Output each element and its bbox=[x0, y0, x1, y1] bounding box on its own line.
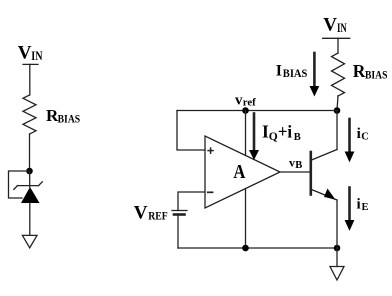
wire battery to rail bbox=[177, 215, 179, 249]
op-amp A bbox=[205, 136, 280, 208]
wire bbox=[337, 38, 339, 53]
svg-text:+i: +i bbox=[278, 122, 292, 142]
label iC bbox=[357, 126, 369, 142]
label VREF bbox=[134, 202, 168, 223]
svg-text:C: C bbox=[361, 131, 369, 142]
label iE bbox=[357, 197, 369, 213]
svg-text:REF: REF bbox=[148, 211, 168, 223]
svg-text:IN: IN bbox=[31, 48, 43, 63]
svg-text:I: I bbox=[276, 62, 282, 79]
wire vref rail bbox=[177, 110, 337, 112]
wire bbox=[29, 203, 31, 235]
svg-text:BIAS: BIAS bbox=[283, 68, 308, 80]
terminal bar VIN left bbox=[23, 63, 38, 65]
wire to + input bbox=[177, 111, 205, 151]
label RBIAS left bbox=[46, 106, 80, 126]
svg-text:i: i bbox=[357, 126, 361, 142]
transistor Q1 bbox=[311, 150, 337, 201]
wire opamp V- supply bbox=[245, 189, 247, 248]
svg-text:E: E bbox=[362, 202, 369, 213]
wire reference loop bbox=[9, 171, 30, 198]
wire opamp output to base bbox=[280, 171, 310, 173]
terminal bar VIN right bbox=[323, 37, 350, 39]
node vin/collector junction bbox=[334, 107, 341, 114]
label IQ+iB bbox=[262, 122, 301, 143]
svg-text:IN: IN bbox=[337, 20, 347, 35]
svg-text:V: V bbox=[18, 42, 32, 63]
wire bottom rail bbox=[178, 247, 337, 249]
label IBIAS bbox=[276, 62, 308, 80]
battery VREF bbox=[172, 211, 187, 215]
wire collector bbox=[336, 111, 338, 150]
svg-text:v: v bbox=[289, 155, 295, 169]
svg-text:R: R bbox=[353, 61, 366, 81]
wire opamp V+ supply bbox=[245, 111, 247, 156]
net label vref bbox=[235, 92, 256, 108]
zener diode D1 bbox=[14, 171, 43, 203]
node (zener cathode junction) bbox=[26, 168, 33, 175]
svg-text:B: B bbox=[295, 160, 302, 171]
svg-text:BIAS: BIAS bbox=[58, 114, 81, 126]
node below opamp bbox=[242, 245, 249, 252]
current arrow iC bbox=[345, 119, 355, 162]
svg-text:B: B bbox=[294, 132, 301, 143]
node emitter/rail bbox=[334, 245, 341, 252]
resistor RBIAS left bbox=[23, 95, 36, 134]
svg-text:BIAS: BIAS bbox=[365, 70, 388, 82]
net label VIN left bbox=[18, 42, 43, 63]
wire bbox=[29, 64, 31, 95]
svg-text:i: i bbox=[357, 197, 361, 213]
label RBIAS right bbox=[353, 61, 388, 82]
svg-text:v: v bbox=[235, 92, 243, 108]
svg-text:A: A bbox=[233, 161, 245, 183]
current arrow iE bbox=[345, 188, 355, 231]
svg-text:Q: Q bbox=[269, 131, 278, 143]
minus input mark bbox=[208, 191, 213, 193]
plus input mark bbox=[208, 150, 213, 152]
ground right bbox=[330, 267, 344, 281]
ground left bbox=[22, 235, 37, 247]
node vref bbox=[242, 107, 249, 114]
wire emitter bbox=[336, 200, 338, 248]
wire to ground right bbox=[336, 248, 338, 267]
wire bbox=[337, 96, 338, 111]
current arrow IQ+iB bbox=[249, 114, 259, 161]
resistor RBIAS right bbox=[332, 53, 345, 96]
svg-text:V: V bbox=[323, 14, 337, 35]
net label vB bbox=[289, 155, 302, 171]
current arrow IBIAS bbox=[310, 53, 320, 97]
net label VIN right bbox=[323, 14, 347, 35]
svg-text:ref: ref bbox=[243, 98, 257, 109]
svg-text:V: V bbox=[134, 202, 148, 223]
wire to - input bbox=[178, 192, 205, 211]
wire bbox=[29, 134, 31, 171]
